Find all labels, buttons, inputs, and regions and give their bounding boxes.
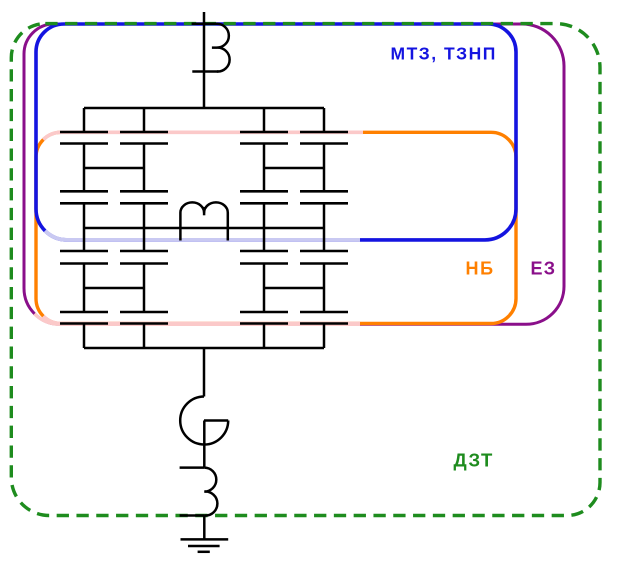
battery string column 2: series cells (120, 108, 168, 348)
reactor L1 cusp notch (212, 46, 217, 49)
wire: equalizer link rows group 2 (264, 168, 324, 288)
battery string column 4: series cells (300, 108, 348, 348)
zone МТЗ, ТЗНП boundary (blue rounded rect) (36, 24, 516, 240)
battery string column 1: series cells (60, 108, 108, 348)
wire: top feeder into reactor L1 (203, 12, 206, 108)
reactor L1 winding (two arcs) (217, 24, 230, 72)
zone НБ top edge faded behind battery (pale pink) (43, 132, 363, 139)
zone НБ boundary (orange rounded rect) (36, 132, 516, 323)
ground symbol (181, 538, 229, 541)
reactor L1 top tick (192, 23, 218, 26)
zone НБ bottom edge faded behind battery (pale pink) (43, 316, 360, 323)
node: top bus of battery bank (84, 107, 324, 110)
node: bottom bus of battery bank (84, 347, 324, 350)
zone ЕЗ boundary (purple rounded rect) (24, 24, 564, 324)
svg-text:МТЗ, ТЗНП: МТЗ, ТЗНП (391, 44, 497, 64)
reactor L3 top tick (180, 466, 205, 469)
zone ДЗТ boundary (green dashed rounded rect) (11, 24, 600, 516)
zone ЕЗ bottom edge faded behind battery (pale pink) (35, 314, 361, 325)
reactor L3 bottom tick (180, 514, 205, 517)
svg-text:НБ: НБ (466, 259, 495, 279)
wire: machine M1 center down to reactor L3 (203, 421, 206, 468)
inductor L2 on middle bus (two bumps up) (180, 202, 227, 240)
inductor L2 cusp notch (203, 207, 206, 215)
node: middle bus of battery bank (84, 227, 324, 230)
wire: equalizer link rows group 1 (84, 168, 144, 288)
battery string column 3: series cells (240, 108, 288, 348)
machine M1 (circle with open quadrant) (180, 397, 228, 445)
zone МТЗ bottom edge faded behind battery (pale lavender) (45, 231, 360, 240)
svg-text:ЕЗ: ЕЗ (531, 259, 557, 279)
svg-text:ДЗТ: ДЗТ (454, 450, 494, 471)
reactor L1 bottom tick (192, 70, 218, 73)
reactor L3 winding (two arcs) (204, 468, 217, 516)
wire: reactor L3 to ground (203, 516, 206, 540)
wire: bottom bus down to machine M1 (203, 348, 206, 397)
machine M1 radius line (204, 419, 228, 422)
